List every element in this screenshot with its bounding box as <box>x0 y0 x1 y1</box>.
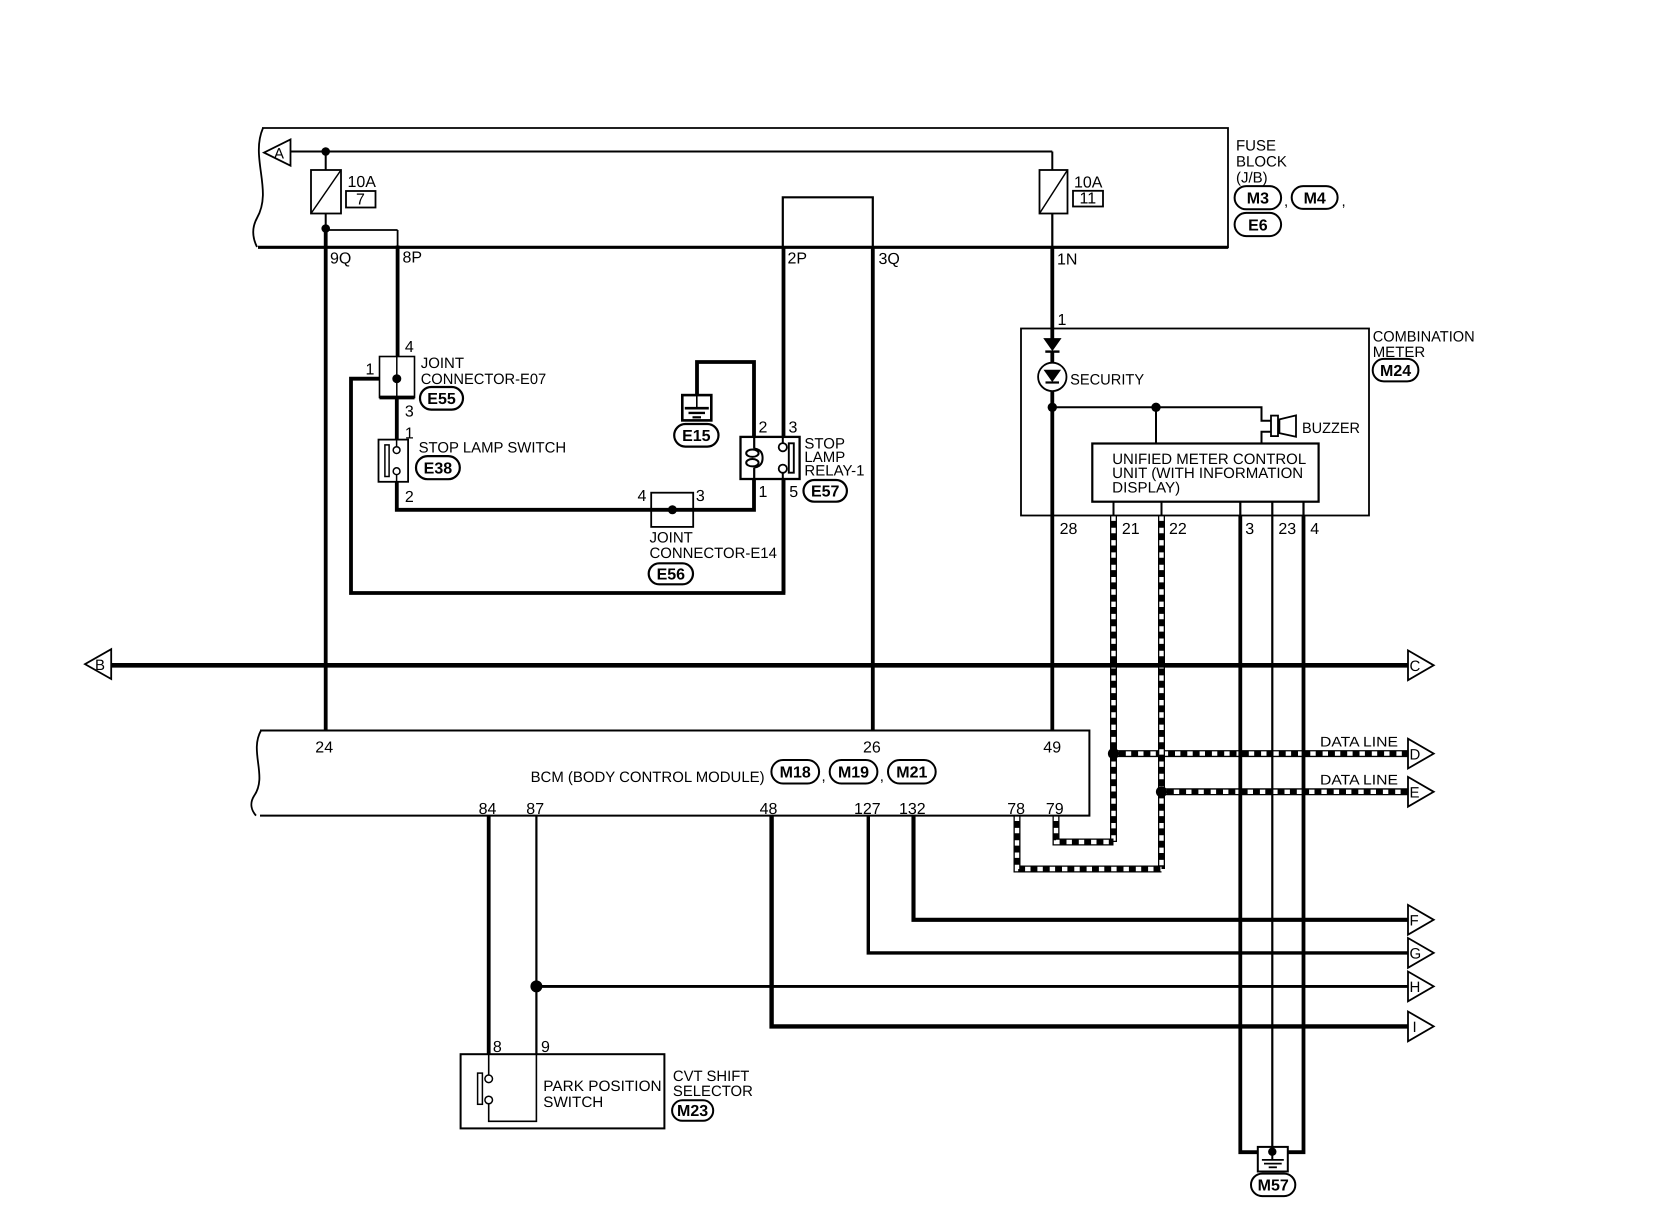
wire data line E (dashed) from meter pin 22 through junction to arrow E and down <box>1162 516 1409 870</box>
svg-text:78: 78 <box>1007 801 1025 818</box>
svg-text:3: 3 <box>696 488 705 505</box>
svg-text:28: 28 <box>1060 521 1078 538</box>
arrow A (to sheet A) <box>264 140 291 166</box>
wire meter pin 23 vertical to ground M57 <box>1271 502 1273 1152</box>
svg-text:,: , <box>1284 193 1288 210</box>
wire fuse 11 top lead <box>1051 152 1053 171</box>
svg-text:10A: 10A <box>1074 175 1103 192</box>
svg-text:5: 5 <box>789 484 798 501</box>
wire BCM pin 79 dashed link to data line D <box>1056 816 1114 842</box>
svg-text:(J/B): (J/B) <box>1236 170 1268 187</box>
svg-text:PARK POSITION: PARK POSITION <box>543 1078 661 1095</box>
wire meter pin 4 vertical to ground M57 <box>1302 502 1304 516</box>
wire data line D (dashed) from meter pin 21 through junction to arrow D and down <box>1114 516 1409 843</box>
connector oval M4 <box>1292 186 1338 209</box>
svg-text:SECURITY: SECURITY <box>1070 372 1144 389</box>
wire fuse 7 top lead <box>325 152 327 171</box>
svg-text:,: , <box>822 768 826 785</box>
svg-text:D: D <box>1410 746 1421 763</box>
arrow B (to sheet B) <box>85 649 111 679</box>
svg-text:M18: M18 <box>780 765 811 782</box>
wire 3Q vertical from fuse block to BCM pin 26 <box>871 247 875 731</box>
fuse 11 (10A) <box>1040 170 1068 214</box>
svg-text:M23: M23 <box>677 1103 708 1120</box>
joint connector E07 (E55) box <box>380 357 415 398</box>
svg-text:132: 132 <box>899 801 926 818</box>
svg-text:2: 2 <box>759 420 768 437</box>
stop lamp relay-1 (E57) box <box>741 437 800 479</box>
fuse 7 (10A) <box>311 170 341 214</box>
svg-text:2P: 2P <box>788 250 808 267</box>
svg-text:1: 1 <box>405 426 414 443</box>
arrow I <box>1408 1012 1434 1042</box>
svg-text:84: 84 <box>479 801 497 818</box>
wire 9Q vertical from fuse junction to BCM pin 24 <box>324 229 328 731</box>
svg-text:M4: M4 <box>1304 190 1326 207</box>
joint connector E14 (E56) box <box>651 493 693 527</box>
svg-text:C: C <box>1410 658 1421 675</box>
node junction below fuse 7 (9Q/8P split) <box>321 224 330 233</box>
svg-text:3: 3 <box>1245 521 1254 538</box>
svg-text:BUZZER: BUZZER <box>1302 420 1360 437</box>
svg-text:11: 11 <box>1080 191 1097 208</box>
svg-text:26: 26 <box>863 740 881 757</box>
svg-text:DISPLAY): DISPLAY) <box>1112 480 1180 497</box>
svg-text:B: B <box>95 657 105 674</box>
node junction inside joint connector E07 <box>392 374 401 383</box>
svg-text:A: A <box>274 146 284 163</box>
wire BCM pin 48 to arrow I <box>772 816 1408 1027</box>
wire bus from arrow A to fuse 11 tap <box>291 151 1053 153</box>
svg-text:METER: METER <box>1373 344 1426 361</box>
arrow H <box>1408 972 1434 1002</box>
svg-text:9Q: 9Q <box>330 251 351 268</box>
connector oval M18 <box>771 760 819 784</box>
svg-text:H: H <box>1410 979 1421 996</box>
connector oval E6 <box>1235 213 1282 236</box>
svg-text:E57: E57 <box>811 484 840 501</box>
svg-text:10A: 10A <box>348 174 377 191</box>
svg-text:F: F <box>1410 913 1419 930</box>
svg-text:E56: E56 <box>657 567 686 584</box>
wire 2P vertical from fuse block to stop lamp relay pin 3 <box>782 247 786 437</box>
wire bus 2P-3Q inside fuse block <box>783 197 873 247</box>
svg-text:CONNECTOR-E14: CONNECTOR-E14 <box>650 545 777 562</box>
svg-text:M21: M21 <box>896 765 927 782</box>
arrow C <box>1408 650 1434 680</box>
svg-text:,: , <box>880 768 884 785</box>
wire meter pin 21 stub below control unit <box>1113 502 1115 516</box>
svg-text:RELAY-1: RELAY-1 <box>804 463 864 480</box>
svg-text:79: 79 <box>1046 801 1064 818</box>
label box 11 <box>1073 191 1103 207</box>
combination meter box <box>1021 329 1369 516</box>
svg-text:7: 7 <box>356 192 365 209</box>
svg-text:E6: E6 <box>1248 217 1268 234</box>
svg-text:4: 4 <box>405 339 414 356</box>
svg-text:3: 3 <box>789 420 798 437</box>
wire meter pin 22 stub below control unit <box>1161 502 1163 516</box>
wire BCM pin 127 to arrow G <box>868 816 1408 953</box>
svg-text:23: 23 <box>1278 521 1296 538</box>
ground E15 symbol <box>682 395 711 420</box>
wire from security lamp junction to buzzer branch <box>1052 407 1271 421</box>
connector oval E38 <box>416 456 460 479</box>
diode (anode of security chain) <box>1044 339 1060 352</box>
arrow D <box>1408 739 1434 769</box>
connector oval E57 <box>804 480 847 502</box>
wire meter pin 3 vertical to ground M57 <box>1239 502 1241 516</box>
svg-text:48: 48 <box>760 801 778 818</box>
stop lamp switch (E38) box <box>379 440 409 482</box>
svg-text:87: 87 <box>526 801 544 818</box>
svg-text:8: 8 <box>493 1039 502 1056</box>
svg-text:9: 9 <box>541 1039 550 1056</box>
wire BCM pin 78 dashed link to data line E <box>1017 816 1162 869</box>
unified meter control unit box <box>1092 444 1318 502</box>
ground M57 symbol <box>1258 1147 1288 1172</box>
wire 1N lead from fuse 11 to fuse block edge <box>1051 214 1053 248</box>
node junction on data line D <box>1108 748 1119 759</box>
svg-text:3Q: 3Q <box>879 251 900 268</box>
svg-text:E38: E38 <box>424 460 453 477</box>
wire 8P from E07 pin 3 to stop lamp switch pin 1 <box>395 398 399 440</box>
svg-text:FUSE: FUSE <box>1236 138 1276 155</box>
svg-text:DATA LINE: DATA LINE <box>1320 733 1398 749</box>
BCM (body control module) box with torn left edge <box>251 731 1089 816</box>
arrow F <box>1408 905 1434 935</box>
svg-text:1N: 1N <box>1057 251 1077 268</box>
svg-text:M3: M3 <box>1247 191 1269 208</box>
connector oval E56 <box>649 563 693 584</box>
label box 7 <box>346 191 376 208</box>
svg-text:I: I <box>1413 1019 1417 1036</box>
wire buzzer lower terminal into unified meter control unit <box>1262 432 1272 444</box>
connector oval M19 <box>830 760 878 784</box>
wire security diode chain to meter pin 28 and down to BCM pin 49 <box>1050 352 1054 371</box>
node junction pin 87 / arrow H <box>530 980 542 992</box>
svg-text:DATA LINE: DATA LINE <box>1320 772 1398 788</box>
connector oval M24 <box>1373 359 1419 382</box>
wire 1N vertical to combination meter pin 1 <box>1050 247 1054 339</box>
svg-text:G: G <box>1410 946 1422 963</box>
wire B to C horizontal line <box>111 663 1408 668</box>
svg-text:E: E <box>1410 785 1420 802</box>
svg-text:JOINT: JOINT <box>421 355 464 372</box>
svg-text:1: 1 <box>759 484 768 501</box>
wire BCM pin 87 to arrow H junction and park position switch pin 9 <box>535 816 537 1055</box>
svg-text:2: 2 <box>405 489 414 506</box>
wire relay pin 5 segment inside relay below contact <box>782 478 786 593</box>
svg-text:4: 4 <box>1310 521 1319 538</box>
svg-text:BCM (BODY CONTROL MODULE): BCM (BODY CONTROL MODULE) <box>531 769 765 786</box>
wire BCM pin 84 to park position switch pin 8 <box>487 816 491 1055</box>
park position switch box <box>461 1054 665 1128</box>
wire joint connector E07 pin 1 lead <box>351 379 784 593</box>
connector oval M57 <box>1251 1174 1295 1197</box>
svg-text:SWITCH: SWITCH <box>543 1094 603 1111</box>
wire 8P vertical to joint connector E07 pin 4 <box>397 230 399 247</box>
svg-text:8P: 8P <box>403 250 423 267</box>
fuse block (J/B) outline with torn left edge <box>253 128 1228 247</box>
svg-text:21: 21 <box>1122 521 1140 538</box>
connector oval M21 <box>888 760 936 784</box>
node junction on bus at fuse 7 <box>321 147 330 156</box>
connector oval E55 <box>420 387 463 410</box>
svg-text:M19: M19 <box>838 765 869 782</box>
node junction inside ground M57 <box>1268 1148 1276 1156</box>
buzzer symbol <box>1271 415 1296 436</box>
svg-text:JOINT: JOINT <box>650 529 693 546</box>
connector oval M3 <box>1235 186 1282 209</box>
svg-text:BLOCK: BLOCK <box>1236 154 1287 171</box>
node junction at buzzer branch <box>1151 403 1160 412</box>
node junction inside joint connector E14 <box>668 505 677 514</box>
svg-text:,: , <box>1342 193 1346 210</box>
svg-text:SELECTOR: SELECTOR <box>673 1083 753 1100</box>
svg-text:CONNECTOR-E07: CONNECTOR-E07 <box>421 371 547 388</box>
security indicator LED (circled diode) <box>1038 363 1066 391</box>
svg-text:STOP LAMP SWITCH: STOP LAMP SWITCH <box>419 439 567 456</box>
arrow G <box>1408 938 1434 968</box>
svg-text:22: 22 <box>1169 521 1187 538</box>
wire from buzzer branch junction down to unified meter control unit <box>1155 407 1157 443</box>
svg-text:1: 1 <box>366 361 375 378</box>
node junction on data line E <box>1156 786 1167 797</box>
svg-text:M57: M57 <box>1258 1178 1289 1195</box>
connector oval M23 <box>672 1100 713 1121</box>
wire fuse 7 bottom lead to junction <box>325 214 327 229</box>
svg-text:49: 49 <box>1043 740 1061 757</box>
svg-text:E15: E15 <box>682 428 711 445</box>
wire branch 8P inside fuse block <box>326 229 398 231</box>
wire stop lamp switch pin 2 to joint connector E14 to relay pin 1 <box>397 478 754 510</box>
wire arrow H horizontal <box>536 985 1408 988</box>
svg-text:127: 127 <box>854 801 881 818</box>
svg-text:3: 3 <box>405 403 414 420</box>
svg-text:4: 4 <box>638 488 647 505</box>
svg-text:1: 1 <box>1058 312 1067 329</box>
node junction below security lamp <box>1048 403 1057 412</box>
arrow E <box>1408 777 1434 807</box>
connector oval E15 <box>674 424 718 447</box>
svg-text:24: 24 <box>315 740 333 757</box>
wire BCM pin 132 to arrow F <box>914 816 1409 920</box>
wire ground E15 to relay pin 2 <box>697 362 754 437</box>
svg-text:E55: E55 <box>427 391 456 408</box>
svg-text:M24: M24 <box>1380 363 1411 380</box>
